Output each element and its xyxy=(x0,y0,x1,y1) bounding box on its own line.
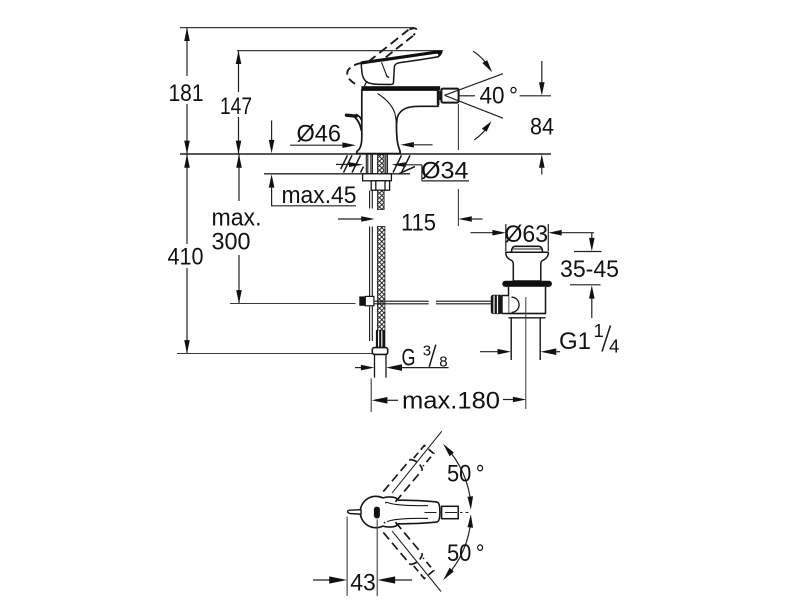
svg-text:Ø34: Ø34 xyxy=(421,158,469,185)
spout end face xyxy=(437,88,440,106)
dimension 147 xyxy=(220,51,252,154)
pop-up rod clamp xyxy=(359,296,374,305)
svg-text:8: 8 xyxy=(439,353,447,370)
deck hatching left block xyxy=(341,155,364,172)
dimension max.45 xyxy=(269,121,357,209)
dimension max.300 xyxy=(212,154,262,303)
svg-text:4: 4 xyxy=(609,335,619,356)
dimension 115 (spout projection) xyxy=(338,104,483,237)
svg-text:3: 3 xyxy=(423,342,431,359)
dimension 43 xyxy=(313,517,412,597)
svg-text:410: 410 xyxy=(168,244,204,271)
dimension 35-45 xyxy=(560,233,619,318)
waste valve tailpipe xyxy=(511,319,540,361)
svg-text:50 °: 50 ° xyxy=(447,460,485,487)
svg-text:max.180: max.180 xyxy=(402,388,500,415)
dashed raised handle (front view) xyxy=(347,28,416,85)
svg-text:147: 147 xyxy=(220,93,252,120)
reference line: max handle height xyxy=(180,27,414,29)
pop-up rod knob (front view) xyxy=(347,114,362,130)
svg-text:300: 300 xyxy=(212,229,251,256)
waste valve side outlet and knurled knob xyxy=(491,295,519,314)
reference line: closed handle height xyxy=(237,50,443,52)
top view: 50 deg rays xyxy=(392,431,442,591)
waste valve pushbutton xyxy=(512,246,543,251)
dimension max.180 xyxy=(371,379,526,415)
top view: dashed handle rotated up 50 xyxy=(383,446,433,502)
dimension A46 (base diameter) xyxy=(290,120,433,148)
handle lever (closed position) xyxy=(361,51,442,87)
waste valve rubber seal xyxy=(502,281,552,287)
dimension 410 xyxy=(168,154,204,353)
body top black band xyxy=(361,86,440,90)
mounting flange under deck xyxy=(363,174,392,190)
spout aerator xyxy=(441,89,458,103)
dimension A34 (hole diameter) with leader xyxy=(336,158,469,185)
svg-text:max.45: max.45 xyxy=(282,182,357,209)
svg-text:115: 115 xyxy=(401,210,436,237)
dimension 40 degrees: rays xyxy=(445,74,504,119)
svg-text:84: 84 xyxy=(530,113,554,140)
dimension 40 degrees: arcs with arrowheads xyxy=(473,51,492,140)
dimension 84 xyxy=(530,61,554,175)
svg-text:35-45: 35-45 xyxy=(560,256,619,283)
threaded stud and braided hose (crosshatch) xyxy=(378,155,385,348)
handle crease lines xyxy=(382,62,388,77)
top view: dashed handle rotated down 50 xyxy=(383,522,433,578)
max.300 extension line xyxy=(230,303,356,305)
svg-text:G: G xyxy=(402,344,416,371)
shank: pull rod tube through deck xyxy=(366,155,387,342)
svg-text:Ø63: Ø63 xyxy=(505,221,549,248)
svg-text:43: 43 xyxy=(350,570,376,597)
dimension A63 xyxy=(471,221,595,251)
svg-text:G1: G1 xyxy=(559,328,591,355)
410 extension line xyxy=(177,353,373,355)
waste valve centerline xyxy=(525,297,527,409)
top view: faucet base circle with handle xyxy=(360,496,440,527)
dimension 181 xyxy=(169,28,204,154)
dimension 40 degrees: leader and text xyxy=(459,82,551,109)
body inner curve xyxy=(378,94,397,133)
svg-text:181: 181 xyxy=(169,80,204,107)
handle blade thick top edge xyxy=(361,51,442,65)
waste valve lower body xyxy=(509,287,546,318)
waste valve top flange xyxy=(506,252,549,281)
top view: black rod mark xyxy=(374,507,380,519)
faucet body front view xyxy=(357,90,439,154)
deck hatching right block xyxy=(393,155,415,173)
svg-text:max.: max. xyxy=(212,205,262,232)
svg-text:1: 1 xyxy=(594,320,604,341)
horizontal pop-up rod to waste xyxy=(374,301,491,304)
countertop deck top line xyxy=(180,153,551,155)
svg-text:Ø46: Ø46 xyxy=(297,120,342,147)
handle pivot dome shoulder xyxy=(365,82,368,87)
top view: 50 deg arcs xyxy=(443,444,473,580)
aerator connector xyxy=(439,91,441,100)
svg-text:50 °: 50 ° xyxy=(447,540,485,567)
svg-text:40 °: 40 ° xyxy=(480,82,519,109)
top view: pop-up knob xyxy=(348,510,361,515)
dimension G3/8 xyxy=(355,342,449,371)
hose end fitting and G3/8 nipple xyxy=(372,330,387,378)
dimension G1 1/4 xyxy=(480,320,619,356)
top view: center line dash-dot xyxy=(425,512,469,514)
deck bottom line xyxy=(264,173,410,175)
top view: aerator box xyxy=(442,506,459,518)
